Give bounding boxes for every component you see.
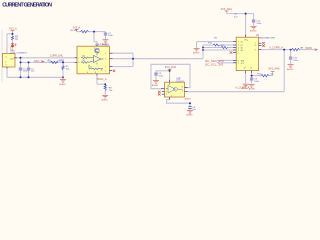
svg-text:7: 7: [238, 63, 239, 65]
svg-text:AGND: AGND: [193, 52, 200, 55]
svg-text:4: 4: [171, 95, 172, 97]
svg-text:3V3_ANA: 3V3_ANA: [268, 66, 280, 70]
svg-text:V_CURR_A: V_CURR_A: [269, 45, 283, 49]
svg-text:AGND: AGND: [186, 114, 193, 117]
svg-text:3: 3: [166, 88, 167, 90]
svg-text:100n: 100n: [23, 71, 29, 73]
svg-text:1k: 1k: [101, 69, 103, 71]
svg-text:10k: 10k: [82, 60, 85, 62]
svg-text:5: 5: [105, 66, 106, 68]
svg-text:AGND: AGND: [102, 98, 109, 101]
svg-text:0R: 0R: [214, 37, 217, 39]
svg-text:IMON: IMON: [306, 47, 313, 50]
svg-text:1: 1: [182, 90, 183, 92]
svg-text:LTST-C190KRKT: LTST-C190KRKT: [10, 52, 28, 54]
svg-text:100n: 100n: [293, 60, 299, 62]
svg-text:8: 8: [182, 86, 183, 88]
svg-text:0R: 0R: [300, 48, 303, 50]
svg-text:8: 8: [255, 45, 256, 47]
svg-text:IN+: IN+: [241, 41, 244, 43]
svg-text:VDAC_A: VDAC_A: [97, 78, 107, 81]
svg-text:9: 9: [255, 50, 256, 52]
svg-text:INA219AIDCNR: INA219AIDCNR: [259, 37, 275, 40]
svg-text:6: 6: [105, 70, 106, 72]
svg-text:11: 11: [250, 67, 252, 69]
svg-text:R4 0R: R4 0R: [71, 30, 78, 32]
svg-text:A1: A1: [241, 49, 243, 52]
svg-text:10k: 10k: [82, 55, 85, 57]
svg-text:U2A TSV912: U2A TSV912: [95, 44, 109, 47]
svg-text:SCL: SCL: [241, 63, 244, 65]
svg-text:1k: 1k: [90, 67, 92, 69]
svg-text:1: 1: [6, 65, 7, 67]
svg-text:CURR_DAC: CURR_DAC: [50, 55, 64, 58]
svg-text:AGND: AGND: [287, 68, 294, 71]
svg-text:AGND: AGND: [250, 29, 257, 32]
svg-text:4: 4: [87, 72, 88, 74]
svg-text:DAC_A: DAC_A: [34, 59, 43, 63]
svg-text:AGND: AGND: [185, 97, 192, 100]
svg-text:I2C_SCL_3V3: I2C_SCL_3V3: [205, 62, 224, 66]
svg-text:100n: 100n: [256, 23, 262, 25]
svg-text:6: 6: [247, 40, 248, 42]
svg-text:100n: 100n: [254, 81, 260, 83]
svg-text:4: 4: [166, 94, 167, 96]
svg-text:AGND: AGND: [152, 84, 159, 87]
svg-text:2: 2: [5, 62, 6, 64]
svg-text:7: 7: [105, 58, 106, 60]
svg-text:AGND: AGND: [59, 83, 66, 86]
svg-text:3V3_A: 3V3_A: [9, 26, 17, 30]
svg-text:OUT: OUT: [10, 58, 15, 60]
svg-text:8: 8: [95, 72, 96, 74]
svg-text:1: 1: [105, 53, 106, 55]
svg-text:4: 4: [6, 56, 7, 58]
svg-text:2: 2: [78, 58, 79, 60]
svg-text:1: 1: [238, 41, 239, 43]
svg-text:100n: 100n: [158, 76, 164, 78]
svg-text:TSV912: TSV912: [176, 81, 185, 83]
svg-text:3V3_ANA: 3V3_ANA: [221, 7, 233, 11]
svg-text:3V3_ANA: 3V3_ANA: [165, 65, 177, 69]
svg-text:100n: 100n: [108, 35, 114, 37]
svg-text:5: 5: [238, 52, 239, 54]
svg-text:AGND: AGND: [242, 87, 249, 90]
svg-text:10: 10: [244, 67, 246, 69]
svg-text:3: 3: [78, 62, 79, 64]
svg-text:CURRENT GENERATION: CURRENT GENERATION: [2, 2, 52, 8]
svg-text:49R9: 49R9: [58, 60, 64, 62]
svg-text:AGND: AGND: [249, 88, 256, 91]
